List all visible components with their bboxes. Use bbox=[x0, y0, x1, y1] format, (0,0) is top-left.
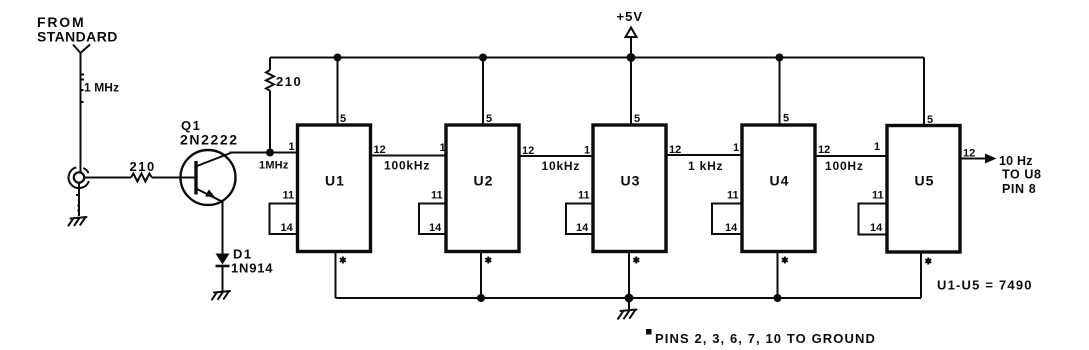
wire: D1 to ground bbox=[222, 266, 224, 291]
svg-text:STANDARD: STANDARD bbox=[37, 29, 118, 45]
pin 11/14 loop (U1) bbox=[270, 204, 298, 235]
svg-text:10kHz: 10kHz bbox=[542, 159, 581, 173]
svg-text:1: 1 bbox=[874, 141, 880, 153]
svg-text:U5: U5 bbox=[915, 173, 935, 189]
resistor R2 210 (pull-up) bbox=[266, 58, 274, 153]
svg-text:5: 5 bbox=[783, 113, 789, 125]
svg-text:14: 14 bbox=[725, 222, 738, 234]
pin 11/14 loop (U5) bbox=[859, 204, 888, 235]
svg-text:PIN 8: PIN 8 bbox=[1002, 182, 1036, 196]
wire: ground rail (bottom) bbox=[336, 297, 922, 299]
svg-text:+5V: +5V bbox=[617, 9, 644, 24]
wire: input vertical from standard bbox=[80, 53, 82, 173]
pin 11/14 loop (U2) bbox=[419, 204, 446, 235]
tick marks on input wire (scan texture) bbox=[76, 75, 84, 211]
wire: Q1 emitter to D1 bbox=[222, 202, 224, 254]
node: rail dot +5V/U3 bbox=[627, 53, 636, 62]
input arrow fork bbox=[73, 45, 90, 54]
svg-text:U3: U3 bbox=[621, 173, 641, 189]
svg-text:14: 14 bbox=[281, 222, 294, 234]
svg-text:1MHz: 1MHz bbox=[259, 160, 289, 172]
wire: U2 pin12 to U3 pin1, 10kHz bbox=[519, 155, 593, 157]
svg-text:2N2222: 2N2222 bbox=[180, 132, 239, 148]
asterisk (U2) bbox=[485, 257, 491, 264]
IC U1 (7490) bbox=[298, 125, 371, 252]
IC U2 (7490) bbox=[446, 125, 519, 252]
svg-text:12: 12 bbox=[374, 144, 386, 156]
wire: U5 bottom pin bbox=[920, 252, 922, 298]
wire: U5 pin 5 bbox=[923, 58, 925, 127]
wire: R1 to Q1 base bbox=[152, 177, 195, 179]
wire: U1 pin12 to U2 pin1, 100kHz bbox=[371, 155, 447, 157]
svg-text:1: 1 bbox=[733, 142, 739, 154]
asterisk (U1) bbox=[340, 257, 346, 264]
resistor R1 210 (series input) bbox=[131, 174, 152, 182]
svg-text:11: 11 bbox=[872, 190, 884, 202]
diode D1 1N914 bbox=[216, 254, 230, 267]
node: rail dot U4 bottom bbox=[774, 294, 782, 302]
wire: connector to R1 bbox=[85, 177, 132, 179]
wire: Q1 collector to U1 pin 1 bbox=[230, 152, 298, 154]
wire: U2 bottom pin bbox=[480, 252, 482, 299]
asterisk (U5) bbox=[925, 258, 931, 265]
svg-text:5: 5 bbox=[486, 113, 492, 125]
svg-text:100kHz: 100kHz bbox=[384, 159, 430, 173]
wire: U2 pin 5 bbox=[482, 58, 484, 126]
svg-text:PINS 2, 3, 6, 7, 10 TO GROUND: PINS 2, 3, 6, 7, 10 TO GROUND bbox=[655, 331, 876, 346]
output arrow head bbox=[985, 154, 997, 164]
svg-text:TO U8: TO U8 bbox=[1002, 168, 1042, 182]
connector J1 (coax input jack) bbox=[69, 167, 89, 188]
svg-text:5: 5 bbox=[634, 113, 640, 125]
IC U3 (7490) bbox=[593, 125, 666, 252]
wire: U5 pin12 output bbox=[960, 158, 986, 160]
asterisk (U3) bbox=[633, 257, 639, 264]
IC U4 (7490) bbox=[742, 125, 815, 252]
svg-text:11: 11 bbox=[431, 190, 443, 202]
wire: U1 bottom pin bbox=[335, 252, 337, 299]
wire: U3 pin12 to U4 pin1, 1 kHz bbox=[666, 154, 742, 156]
pin 11/14 loop (U3) bbox=[566, 204, 593, 235]
node: rail dot U2 bottom bbox=[477, 294, 485, 302]
ground (below D1) bbox=[212, 291, 230, 300]
note asterisk square bbox=[646, 329, 652, 335]
svg-text:14: 14 bbox=[576, 222, 589, 234]
node: rail dot U3 bottom bbox=[625, 294, 634, 303]
wire: +5V top rail bbox=[270, 57, 924, 59]
wire: U3 bottom pin bbox=[628, 252, 630, 299]
svg-text:1: 1 bbox=[584, 145, 590, 157]
IC U5 (7490) bbox=[887, 126, 960, 253]
transistor Q1 2N2222 bbox=[181, 150, 236, 205]
wire: connector shell to ground bbox=[78, 183, 80, 216]
svg-text:11: 11 bbox=[727, 190, 739, 202]
wire: U1 pin 5 bbox=[337, 58, 339, 126]
wire: U4 bottom pin bbox=[777, 252, 779, 299]
svg-text:10 Hz: 10 Hz bbox=[999, 154, 1033, 168]
node: rail dot U1 pin5 bbox=[334, 54, 342, 62]
svg-text:U1-U5 = 7490: U1-U5 = 7490 bbox=[937, 278, 1033, 293]
net label 10 Hz TO U8 PIN 8 bbox=[999, 154, 1042, 196]
svg-text:D1: D1 bbox=[233, 247, 253, 262]
asterisk (U4) bbox=[782, 257, 788, 264]
svg-text:12: 12 bbox=[818, 144, 830, 156]
svg-text:U2: U2 bbox=[474, 173, 494, 189]
power +5V symbol bbox=[617, 9, 644, 125]
svg-text:1: 1 bbox=[289, 141, 295, 153]
svg-text:U1: U1 bbox=[325, 173, 345, 189]
svg-text:1N914: 1N914 bbox=[231, 261, 273, 276]
wire: U4 pin12 to U5 pin1, 100Hz bbox=[815, 155, 887, 157]
svg-text:11: 11 bbox=[578, 190, 590, 202]
svg-text:210: 210 bbox=[130, 159, 156, 174]
node: rail dot U4 pin5 bbox=[776, 54, 784, 62]
svg-text:100Hz: 100Hz bbox=[825, 159, 864, 173]
svg-text:14: 14 bbox=[429, 222, 442, 234]
svg-text:14: 14 bbox=[870, 222, 883, 234]
svg-text:11: 11 bbox=[283, 190, 295, 202]
svg-text:5: 5 bbox=[340, 113, 346, 125]
wire: rail to ground stub bbox=[628, 298, 630, 309]
svg-text:U4: U4 bbox=[770, 173, 790, 189]
node: rail dot U2 pin5 bbox=[479, 54, 487, 62]
svg-text:1 kHz: 1 kHz bbox=[688, 159, 723, 173]
svg-text:210: 210 bbox=[276, 74, 302, 89]
ground (bottom rail) bbox=[618, 310, 637, 319]
svg-text:1 MHz: 1 MHz bbox=[84, 81, 119, 95]
ground (input connector) bbox=[69, 217, 87, 226]
pin 11/14 loop (U4) bbox=[712, 204, 742, 235]
node: collector / R2 junction dot bbox=[266, 149, 274, 157]
wire: U4 pin 5 bbox=[779, 58, 781, 126]
